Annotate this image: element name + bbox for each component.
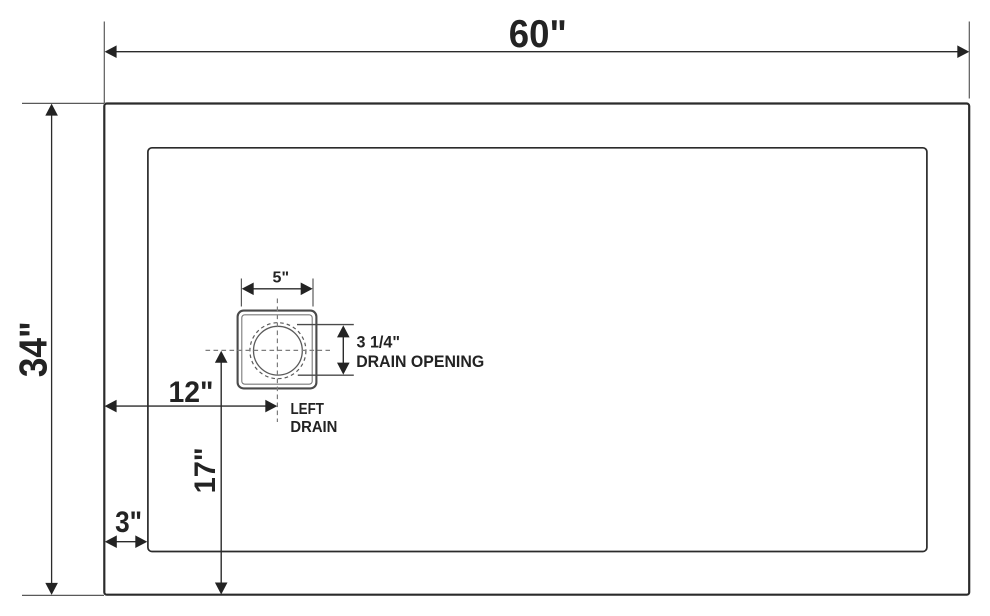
label 5in: [273, 269, 289, 286]
inner ledge rectangle (3in inset): [148, 148, 927, 552]
dimension line 5in: [242, 283, 313, 296]
svg-text:34": 34": [13, 321, 56, 377]
dimension line 3in: [105, 535, 148, 548]
dimension line 3 1/4in (vertical double arrow): [337, 325, 350, 374]
drain square outer border: [238, 311, 317, 389]
svg-text:3": 3": [115, 506, 142, 539]
dimension line 34in: [45, 104, 58, 595]
extension tick left for 5in dimension: [240, 279, 242, 307]
drain square inner border: [242, 315, 312, 384]
svg-text:60": 60": [509, 13, 567, 56]
dimension line 17in: [215, 351, 228, 595]
label LEFT DRAIN: [290, 401, 337, 436]
extension line left for 60in dimension: [103, 22, 105, 104]
svg-text:LEFT: LEFT: [291, 401, 325, 418]
leader line bottom for drain opening: [298, 374, 354, 376]
leader line top for drain opening: [297, 324, 354, 326]
extension line right for 60in dimension: [968, 22, 970, 99]
extension tick right for 5in dimension: [312, 279, 314, 307]
centerline vertical (dashed): [276, 299, 278, 423]
svg-text:DRAIN: DRAIN: [290, 419, 337, 436]
label 12in: [169, 376, 214, 409]
centerline horizontal (dashed): [206, 349, 331, 351]
svg-text:DRAIN OPENING: DRAIN OPENING: [356, 352, 484, 371]
label 34in (rotated): [13, 321, 56, 377]
svg-text:17": 17": [189, 447, 222, 493]
drain dashed circle: [250, 323, 306, 379]
drain solid circle: [254, 326, 303, 375]
label DRAIN OPENING: [356, 352, 484, 371]
extension line bottom for 34in dimension: [22, 594, 104, 596]
label 3 1/4in: [357, 333, 401, 352]
label 3in: [115, 506, 142, 539]
dimension line 12in: [105, 400, 278, 413]
svg-text:5": 5": [273, 269, 289, 286]
extension line top for 34in dimension: [22, 102, 104, 104]
label 17in (rotated): [189, 447, 222, 493]
label 60in: [509, 13, 567, 56]
svg-text:3 1/4": 3 1/4": [357, 333, 401, 352]
outer shower base rectangle (60 x 34): [104, 104, 969, 595]
dimension line 60in: [105, 45, 970, 58]
svg-text:12": 12": [169, 376, 214, 409]
